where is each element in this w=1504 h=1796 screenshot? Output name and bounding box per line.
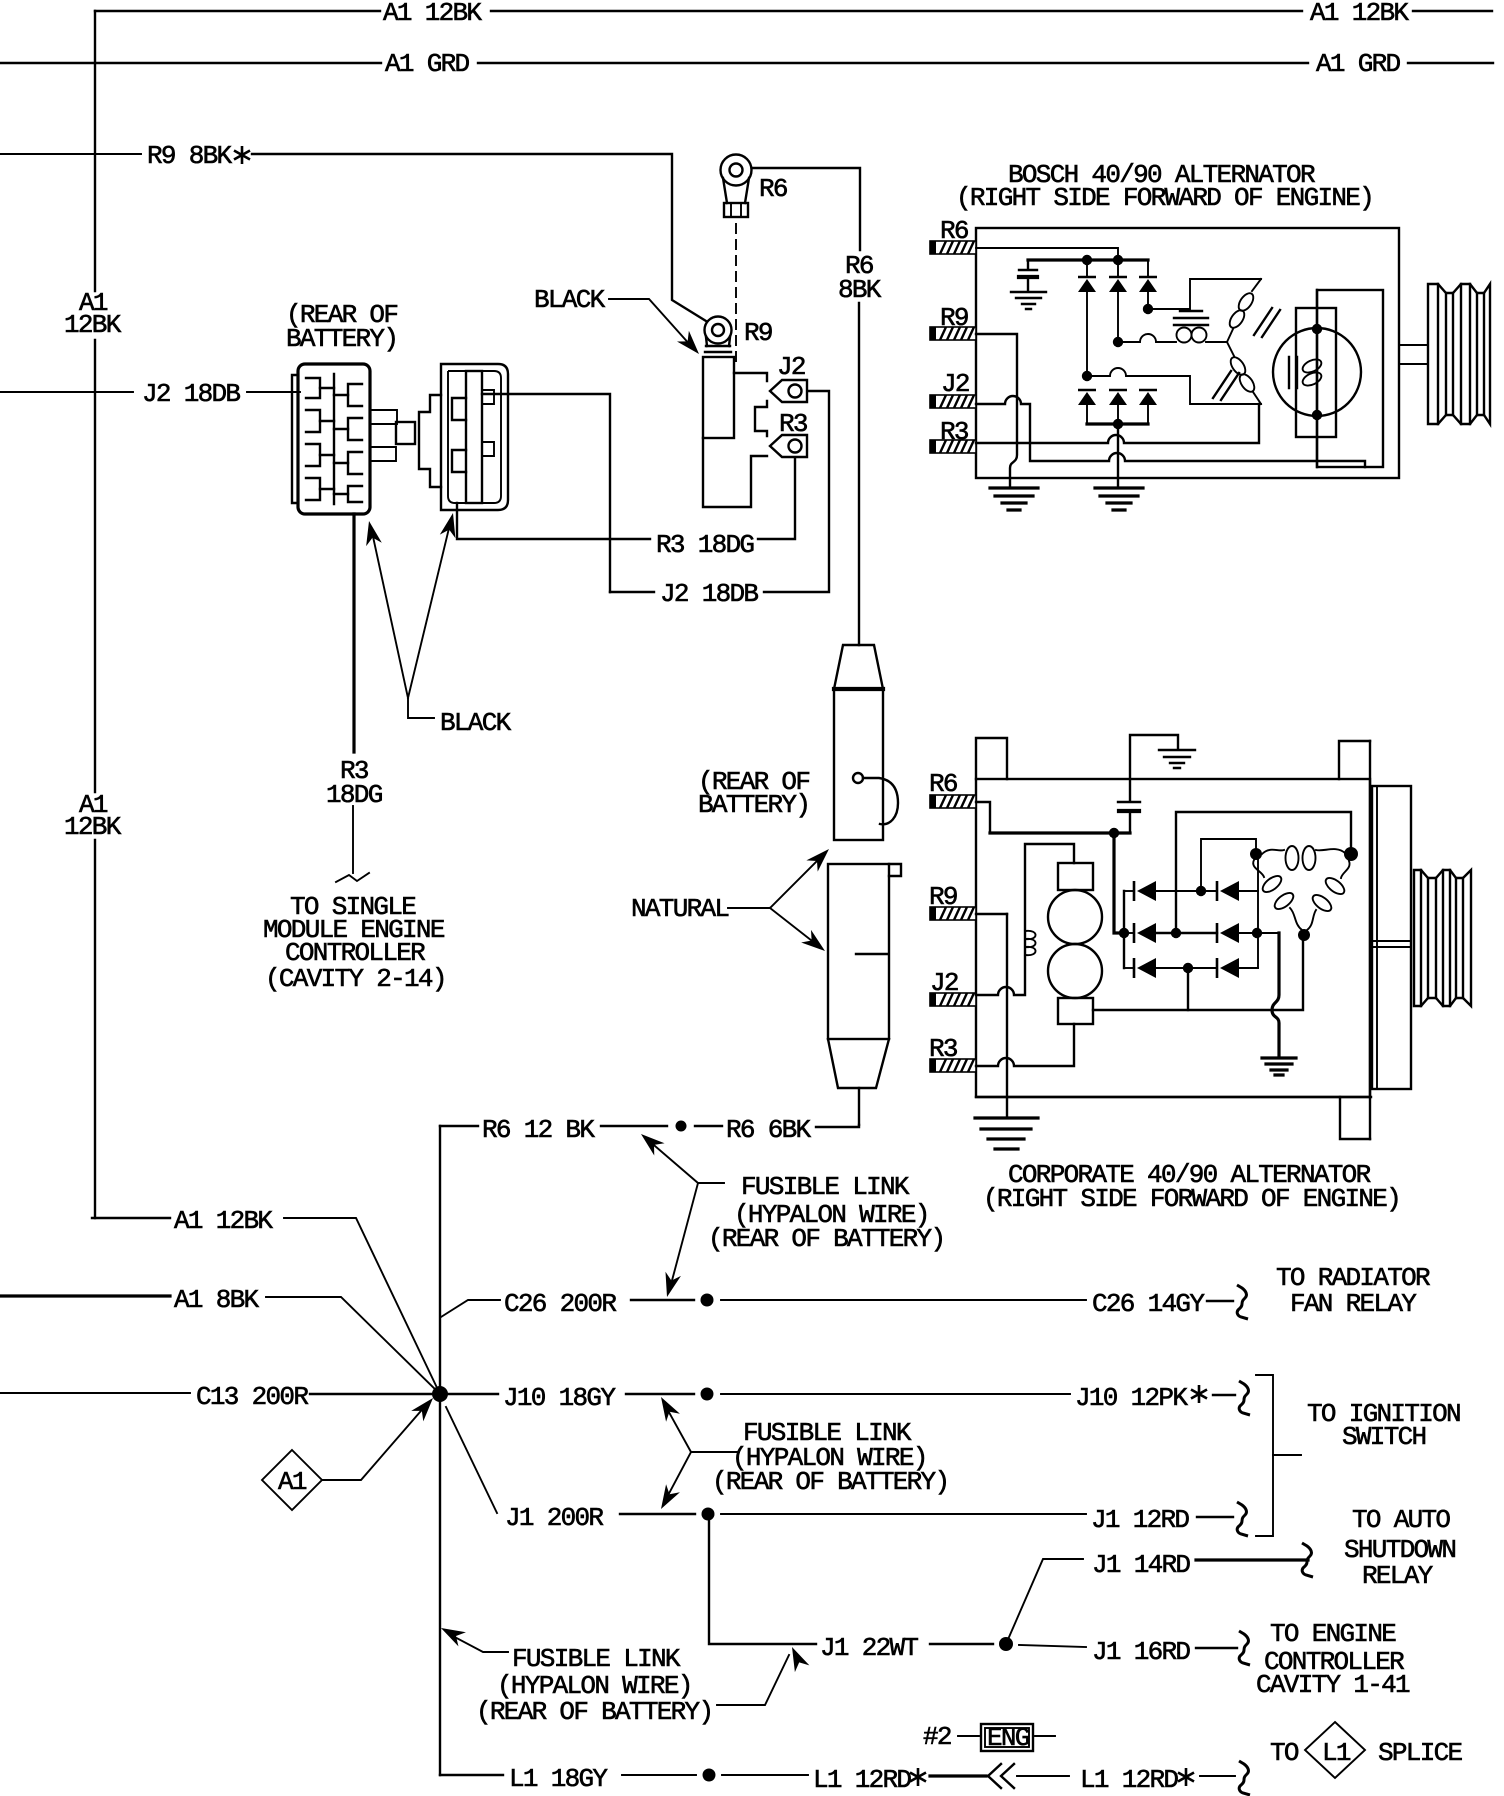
wire R3 internal to regulator bottom (976, 1024, 1074, 1066)
wire J2 18DB to connector (247, 391, 300, 393)
svg-text:J2 18DB: J2 18DB (660, 579, 758, 609)
svg-text:(RIGHT SIDE FORWARD OF ENGINE): (RIGHT SIDE FORWARD OF ENGINE) (956, 183, 1373, 213)
node stator phase 1 (1143, 304, 1153, 314)
node J1 22WT (999, 1637, 1013, 1651)
arrow to connector C1 (372, 532, 408, 698)
wire J1 22WT branch (709, 1514, 816, 1644)
wire R3 18DG from connector C2 (457, 503, 650, 539)
svg-text:L1: L1 (1322, 1738, 1351, 1768)
connector C1 maze cavities (306, 378, 320, 500)
svg-text:TO AUTO: TO AUTO (1352, 1505, 1450, 1535)
ground (capacitor) (1011, 292, 1046, 309)
wire bus down to rectifier row 2 (1114, 833, 1124, 933)
connector C2 pockets (452, 398, 466, 420)
wire main vertical splice (439, 1126, 441, 1775)
label FUSIBLE LINK 3 with leader (449, 1634, 508, 1652)
wire J2 18DB to spade J2 (764, 391, 829, 592)
core marks phase 1 (1254, 308, 1280, 337)
connector C2 center bar (466, 371, 482, 503)
wire A1 12BK top-middle segment (491, 10, 1302, 12)
diode D1 (1078, 277, 1096, 292)
diode D3 (1139, 277, 1157, 292)
svg-text:BATTERY): BATTERY) (286, 324, 397, 354)
svg-text:J1 16RD: J1 16RD (1092, 1637, 1190, 1667)
wire R9 internal to ground below box (976, 913, 1007, 915)
fusible link sleeve 2 (828, 864, 889, 1039)
wire regulator to delta bottom (1093, 935, 1303, 1010)
svg-text:J10 12PK: J10 12PK (1075, 1383, 1188, 1413)
svg-text:ENG: ENG (987, 1723, 1029, 1753)
svg-text:L1 12RD: L1 12RD (1080, 1765, 1178, 1795)
diode D2 (1109, 277, 1127, 292)
svg-text:L1 12RD: L1 12RD (813, 1765, 911, 1795)
wire R6 8BK down to fusible link (858, 303, 860, 645)
svg-text:J1 200R: J1 200R (505, 1503, 603, 1533)
svg-text:R6 12 BK: R6 12 BK (482, 1115, 595, 1145)
svg-text:J1 14RD: J1 14RD (1092, 1550, 1190, 1580)
svg-text:C26 200R: C26 200R (504, 1289, 616, 1319)
svg-text:A1 12BK: A1 12BK (1310, 0, 1409, 28)
wire row3 to delta bottom (1187, 968, 1189, 1010)
box right edge (1369, 741, 1371, 1139)
stator coil phase 1 (diagonal) (1252, 279, 1261, 291)
svg-text:R6: R6 (759, 174, 787, 204)
regulator top block (1058, 863, 1093, 890)
svg-text:FUSIBLE LINK: FUSIBLE LINK (512, 1644, 681, 1674)
svg-text:R9: R9 (744, 318, 772, 348)
svg-text:NATURAL: NATURAL (631, 894, 728, 924)
svg-text:12BK: 12BK (64, 310, 122, 340)
svg-text:J2 18DB: J2 18DB (142, 379, 240, 409)
bottom bus (1087, 422, 1148, 425)
connector C2 left cross profile (419, 395, 441, 487)
label FUSIBLE LINK 2 with leader (665, 1405, 739, 1452)
wire R9 internal to ground (976, 334, 1017, 487)
wire A1 12BK top-right segment (1413, 10, 1492, 12)
battery stud body (703, 357, 734, 438)
svg-text:(RIGHT SIDE FORWARD OF ENGINE): (RIGHT SIDE FORWARD OF ENGINE) (983, 1184, 1400, 1214)
ground (Bosch left) (990, 488, 1038, 510)
svg-text:J1 12RD: J1 12RD (1091, 1505, 1189, 1535)
Bosch alternator box U1 (976, 228, 1399, 478)
wire R6 internal (976, 248, 1118, 260)
inline connector chevrons (988, 1764, 1001, 1788)
label BLACK (lower) with leader (408, 698, 434, 718)
wire J2 18DB stub from left edge (0, 391, 133, 393)
regulator bottom block (1058, 998, 1093, 1024)
rectifier row 2 (1119, 928, 1129, 938)
svg-text:J10 18GY: J10 18GY (503, 1383, 616, 1413)
node J1 (702, 1508, 715, 1521)
node J10 (701, 1388, 714, 1401)
rotor housing (1317, 290, 1383, 467)
pulley (Corporate) (1414, 870, 1471, 1006)
wire R3 18DG to ring R3 (758, 458, 795, 539)
break symbol (336, 873, 369, 882)
label C13 200R (0, 1392, 190, 1394)
connector C1 plug stub (396, 422, 415, 444)
svg-text:TO: TO (1270, 1738, 1299, 1768)
stator coil phase 3 (diagonal) (1253, 392, 1261, 404)
svg-text:C13 200R: C13 200R (196, 1382, 308, 1412)
dashed wire below ring R6 (735, 224, 737, 368)
stator coil phase 2 (1177, 328, 1192, 343)
delta top coil (1262, 850, 1284, 854)
label FUSIBLE LINK 1 with leader (648, 1140, 724, 1183)
rotor brush box (1296, 308, 1336, 437)
svg-text:A1 12BK: A1 12BK (174, 1206, 273, 1236)
wire A1 GRD right segment (1408, 62, 1493, 64)
mounting lug top-right (1339, 741, 1370, 779)
Corporate alternator box U2 (976, 779, 1370, 1097)
wire A1 12BK left vertical middle (94, 340, 96, 792)
wire J1 14RD diagonal (1006, 1559, 1083, 1644)
svg-text:R6 6BK: R6 6BK (726, 1115, 812, 1145)
wire sleeve 2 to R6 6BK (858, 1088, 860, 1125)
wire R3 to engine controller (352, 806, 354, 873)
wire L1 row (440, 1774, 503, 1776)
node stator phase 2 (1113, 337, 1123, 347)
ground (capacitor Corp) (1159, 750, 1195, 768)
capacitor C2 (1118, 801, 1140, 803)
wire A1 GRD middle segment (478, 62, 1308, 64)
connector C1 right tabs (370, 410, 397, 424)
delta right coil (1341, 861, 1350, 878)
svg-text:A1 8BK: A1 8BK (174, 1285, 260, 1315)
bracket ignition switch (1256, 1375, 1273, 1536)
wire A1 12BK left vertical lower (94, 840, 96, 1218)
bearing plate (1372, 786, 1411, 1089)
delta winding vertices (1250, 848, 1262, 860)
lower diodes D4 D5 D6 (1078, 390, 1096, 405)
svg-text:BLACK: BLACK (534, 285, 606, 315)
wire J2 internal to regulator (976, 844, 1074, 995)
node splice R6 (676, 1121, 687, 1132)
wire J2 18DB from connector C2 (482, 394, 610, 592)
svg-text:R3 18DG: R3 18DG (656, 530, 753, 560)
fusible link sleeve 1 (natural) (834, 645, 883, 689)
wire bottom bus to ground (1117, 424, 1119, 487)
rectifier row 1 (1124, 890, 1133, 892)
bus to capacitor (990, 831, 1130, 834)
wire J2 internal to rotor (976, 396, 1365, 467)
node stator phase 3 (1082, 371, 1092, 381)
rectifier row 3 (1124, 967, 1133, 969)
wire ring R6 to R6 8BK vertical (752, 168, 860, 250)
svg-text:(REAR OF BATTERY): (REAR OF BATTERY) (708, 1224, 944, 1254)
brush circle 1 (1048, 890, 1102, 944)
rectifier columns (1087, 260, 1148, 277)
svg-text:FAN RELAY: FAN RELAY (1290, 1289, 1417, 1319)
svg-text:A1: A1 (278, 1467, 307, 1497)
field coil on J2 wire (1025, 931, 1036, 955)
svg-text:L1 18GY: L1 18GY (509, 1764, 608, 1794)
svg-text:C26 14GY: C26 14GY (1092, 1289, 1205, 1319)
svg-text:8BK: 8BK (838, 275, 882, 305)
svg-text:TO ENGINE: TO ENGINE (1270, 1619, 1396, 1649)
wire R3 internal to stator (976, 404, 1259, 443)
svg-text:A1 GRD: A1 GRD (385, 49, 470, 79)
wire row2 to ground (1272, 933, 1279, 1056)
wire A1 12BK left vertical upper (94, 11, 96, 291)
mounting lug top-left (976, 738, 1007, 779)
pulley (Bosch) (1428, 284, 1490, 424)
svg-text:A1 GRD: A1 GRD (1316, 49, 1401, 79)
wire A1 12BK top-left segment (95, 10, 380, 12)
arrow to connector C2 (408, 524, 450, 698)
svg-text:(CAVITY 2-14): (CAVITY 2-14) (265, 964, 446, 994)
wire J2 18DB inline continue (610, 591, 654, 593)
wire R3 18DG connector C1 pin down (352, 514, 355, 752)
core marks phase 3 (1213, 371, 1239, 400)
node C26 (701, 1294, 714, 1307)
svg-text:#2: #2 (923, 1722, 951, 1752)
brushes (1289, 357, 1297, 388)
svg-text:A1 12BK: A1 12BK (383, 0, 482, 28)
svg-text:(REAR OF BATTERY): (REAR OF BATTERY) (712, 1467, 948, 1497)
wire A1 GRD left segment (0, 62, 381, 64)
svg-text:BATTERY): BATTERY) (698, 790, 809, 820)
ring terminal R9 (black) (705, 317, 732, 344)
rotor circle (1273, 328, 1361, 416)
label A1 8BK (0, 1294, 170, 1297)
svg-text:SPLICE: SPLICE (1378, 1738, 1463, 1768)
splice symbol A1 diamond (262, 1450, 322, 1510)
svg-text:BLACK: BLACK (440, 708, 512, 738)
wire R6 6BK to sleeve (816, 1125, 859, 1127)
connector C1 left flange (292, 375, 298, 503)
wire R6 internal (976, 802, 990, 833)
wire R9 8BK* to ring terminal (252, 154, 706, 321)
ground (delta) (1262, 1058, 1296, 1075)
splice junction A1 (432, 1386, 448, 1402)
svg-text:J2: J2 (777, 352, 805, 382)
brush circle 2 (1048, 944, 1102, 998)
wire C26 200R row (441, 1300, 500, 1317)
rotor winding loops (1301, 357, 1324, 375)
wire J10 18GY row (447, 1393, 498, 1395)
ring terminal R6 (battery cable) (721, 155, 752, 186)
wire row1 to delta TL (1201, 839, 1256, 891)
right bus rectifier (1257, 857, 1259, 968)
top bus (1028, 258, 1148, 261)
left bus rectifier (1123, 891, 1125, 968)
svg-text:FUSIBLE LINK: FUSIBLE LINK (741, 1172, 910, 1202)
wire J1 200R row (446, 1407, 497, 1513)
delta left coil (1253, 860, 1264, 877)
connector C1 body (6-way maze connector) (298, 364, 370, 514)
svg-text:12BK: 12BK (64, 812, 122, 842)
wire R9 8BK* stub from left edge (0, 153, 141, 155)
box bottom edge emphasize (976, 1096, 1371, 1098)
ground (below Corp box) (975, 1118, 1038, 1149)
svg-text:R9 8BK: R9 8BK (147, 141, 233, 171)
label A1 12BK bottom (92, 1217, 170, 1219)
connector C2 outer shell (441, 364, 508, 510)
svg-text:J1 22WT: J1 22WT (820, 1633, 918, 1663)
ground (Bosch center) (1095, 488, 1143, 510)
svg-text:(REAR OF BATTERY): (REAR OF BATTERY) (476, 1697, 712, 1727)
wire R6 12 BK row (440, 1125, 478, 1127)
connector C2 inner shell (448, 371, 501, 503)
svg-text:CAVITY 1-41: CAVITY 1-41 (1256, 1670, 1410, 1700)
wire row2 to delta TR (1176, 812, 1351, 931)
shaft to pulley (1399, 345, 1428, 364)
svg-text:SWITCH: SWITCH (1342, 1422, 1426, 1452)
svg-text:RELAY: RELAY (1362, 1561, 1434, 1591)
capacitor C1 to ground (1027, 260, 1029, 269)
node L1 (703, 1769, 716, 1782)
mounting lug bottom-right (1340, 1097, 1370, 1139)
